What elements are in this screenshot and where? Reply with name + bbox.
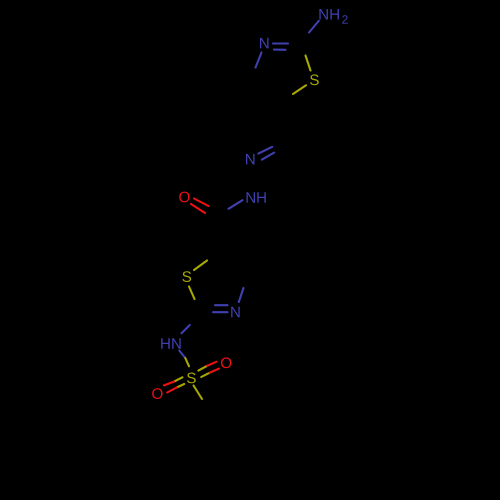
bond NH-S sulfonyl (blue half): [179, 351, 185, 359]
bond C2a-NH2 (amine): [309, 21, 319, 33]
bond S-CH3 methyl: [194, 386, 203, 400]
atom label o-carbonyl (O): [179, 192, 189, 203]
bond C2b=N3b double bond: [213, 305, 228, 312]
atom label s1b (S): [182, 271, 191, 282]
bond N3a-C4a: [256, 53, 262, 68]
bond C2a-S1a: [306, 56, 311, 71]
bond S1b-C5b (bottom thiazole): [194, 261, 207, 271]
atom label nh-amide-N (N): [247, 192, 256, 203]
atom label n3b (N): [231, 307, 240, 318]
atom label hn-N (N): [172, 338, 181, 349]
atom label nh2-N (N): [319, 9, 328, 20]
bond S1b-C2b: [189, 287, 195, 300]
bond C2b-NH (sulfonamide N): [182, 325, 190, 333]
atom label o-right (O): [221, 357, 231, 368]
atom label nh2-2 (2): [342, 15, 348, 23]
bond S=O right double bond: [198, 362, 219, 377]
atom label o-left (O): [152, 388, 162, 399]
atom label hn-H (H): [161, 338, 170, 349]
atom label n3a (N): [260, 38, 269, 49]
atom label s1a (S): [310, 74, 319, 85]
atom label nh2-H (H): [330, 9, 339, 20]
atom label n-hydrazone (N): [246, 154, 255, 165]
bond S=O left double bond: [164, 377, 184, 392]
bond C=O carbonyl double bond: [191, 199, 209, 214]
bond N3a=C2a (top thiazole ring double bond): [273, 44, 288, 50]
atom label s-sulfonyl (S): [187, 373, 196, 384]
bond N3b-C4b: [239, 288, 244, 302]
bond NH-S sulfonyl (sulfur half): [185, 358, 189, 366]
atom label nh-amide-H (H): [257, 192, 266, 203]
bond S1a-C5a: [293, 85, 306, 94]
bond CH=N hydrazone double bond: [258, 147, 274, 160]
bond NH-C(=O) amide: [229, 200, 243, 209]
